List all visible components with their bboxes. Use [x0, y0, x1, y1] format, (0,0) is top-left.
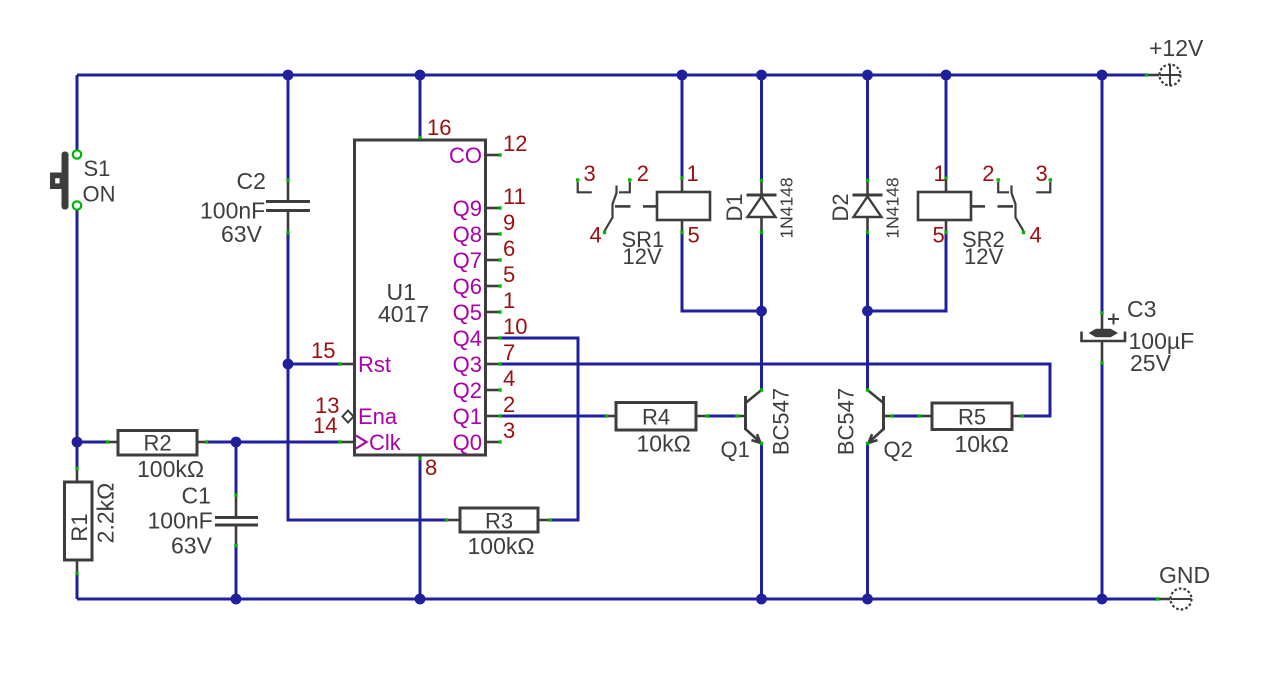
U1 pin 6 (Q7): [453, 236, 516, 273]
U1 pin 15 (Rst): [311, 338, 391, 377]
svg-text:63V: 63V: [221, 221, 263, 247]
svg-text:3: 3: [1036, 161, 1048, 186]
junction top rail / C3: [1097, 70, 1108, 81]
svg-text:12V: 12V: [623, 244, 662, 269]
wire node to R1 top: [76, 442, 79, 468]
U1 pin 8: [418, 455, 437, 480]
wire rail to D1 cathode: [760, 75, 763, 180]
U1 pin 1 (Q5): [453, 288, 516, 325]
U1 pin 4 (Q2): [453, 366, 516, 403]
svg-text:D2: D2: [828, 193, 853, 221]
wire R1 bottom to GND rail: [76, 574, 79, 599]
junction node S1/R1/R2: [72, 437, 83, 448]
svg-text:R3: R3: [485, 509, 513, 534]
wire C3 minus to GND rail: [1101, 364, 1104, 599]
svg-text:Ena: Ena: [358, 404, 398, 429]
U1 pin 10 (Q4): [453, 314, 528, 351]
GND terminal: [1156, 589, 1192, 610]
U1 pin 14 (Clk): [313, 413, 402, 455]
junction top rail / SR1: [677, 70, 688, 81]
svg-text:8: 8: [425, 455, 437, 480]
svg-text:Q4: Q4: [453, 326, 482, 351]
capacitor C3: [1082, 311, 1126, 364]
resistor R1: [65, 467, 93, 575]
svg-text:1N4148: 1N4148: [883, 177, 903, 238]
svg-text:R4: R4: [642, 405, 670, 430]
SR1 contact arm pin 4: [603, 186, 617, 235]
svg-text:Q9: Q9: [453, 196, 482, 221]
wire D2 node to SR2 pin5: [868, 233, 947, 311]
svg-text:4: 4: [1030, 223, 1042, 248]
svg-text:2.2kΩ: 2.2kΩ: [93, 483, 119, 544]
svg-text:63V: 63V: [171, 533, 213, 559]
svg-text:+12V: +12V: [1149, 35, 1204, 61]
svg-text:25V: 25V: [1130, 350, 1172, 376]
svg-text:15: 15: [311, 338, 335, 363]
svg-text:5: 5: [688, 223, 700, 248]
wire rail to C3 plus: [1101, 75, 1104, 312]
junction GND rail / pin8: [415, 594, 426, 605]
wire rail to C2 top: [287, 75, 290, 179]
svg-text:Q1: Q1: [453, 404, 482, 429]
wire Rst link: [288, 363, 340, 366]
svg-text:Q7: Q7: [453, 248, 482, 273]
transistor Q1 (Q1): [735, 388, 763, 445]
svg-text:5: 5: [933, 223, 945, 248]
svg-text:1: 1: [934, 161, 946, 186]
resistor R2: [106, 431, 208, 456]
relay SR2 coil: [918, 176, 1013, 234]
U1 pin 7 (Q3): [453, 340, 516, 377]
svg-text:Q2: Q2: [884, 437, 913, 462]
svg-text:BC547: BC547: [834, 388, 859, 455]
svg-text:5: 5: [503, 262, 515, 287]
transistor Q2 (Q2): [866, 388, 894, 445]
S1 terminal pin top: [73, 150, 81, 158]
svg-text:2: 2: [503, 392, 515, 417]
wire top +12V rail: [77, 74, 1146, 77]
svg-text:10kΩ: 10kΩ: [955, 431, 1009, 457]
U1 pin 5 (Q6): [453, 262, 516, 299]
wire R2 right to Clk: [207, 441, 340, 444]
svg-text:GND: GND: [1159, 562, 1210, 588]
svg-text:R2: R2: [143, 431, 171, 456]
svg-text:Q3: Q3: [453, 352, 482, 377]
SR1 contact pin 3: [576, 178, 592, 192]
wire Q1 to R4 left: [500, 415, 606, 418]
switch S1 body: [62, 152, 69, 210]
wire node to R2 left: [77, 441, 107, 444]
diode D1 symbol: [747, 179, 777, 234]
wire rail to SR2 pin1: [945, 75, 948, 177]
wire C2 bottom to R3 left: [288, 233, 445, 520]
wire node to C1 top: [235, 442, 238, 494]
svg-text:3: 3: [584, 161, 596, 186]
svg-text:Q2: Q2: [453, 378, 482, 403]
svg-text:100kΩ: 100kΩ: [137, 456, 204, 482]
svg-text:1: 1: [503, 288, 515, 313]
svg-text:11: 11: [503, 184, 526, 209]
U1 pin 2 (Q1): [453, 392, 516, 429]
svg-text:10: 10: [503, 314, 527, 339]
svg-text:Clk: Clk: [369, 430, 402, 455]
U1 pin 13 (Ena): [315, 393, 398, 429]
wire S1 top: [76, 75, 79, 150]
svg-text:1: 1: [687, 161, 699, 186]
svg-text:2: 2: [982, 161, 994, 186]
U1 pin 9 (Q8): [453, 210, 516, 247]
wire rail to pin16: [419, 75, 422, 137]
wire Q2 base to R5 left: [893, 415, 919, 418]
svg-text:C3: C3: [1127, 296, 1156, 322]
svg-text:16: 16: [427, 115, 451, 140]
resistor R5: [918, 403, 1024, 430]
svg-text:14: 14: [313, 413, 337, 438]
SR2 contact arm pin 4: [1012, 186, 1026, 235]
junction GND rail / Q1 emitter: [756, 594, 767, 605]
svg-text:Q1: Q1: [721, 437, 750, 462]
op IC U1 4017 box: [355, 140, 486, 455]
wire D2 anode to Q2 collector: [866, 233, 869, 389]
svg-text:10kΩ: 10kΩ: [637, 431, 691, 457]
svg-text:7: 7: [503, 340, 515, 365]
junction GND rail / C1: [231, 594, 242, 605]
junction top rail / D1: [756, 70, 767, 81]
SR1 contact pin 2: [619, 178, 632, 192]
junction GND rail / C3: [1097, 594, 1108, 605]
svg-text:100kΩ: 100kΩ: [468, 533, 535, 559]
svg-text:D1: D1: [722, 193, 747, 221]
junction node SR1/D1: [756, 306, 767, 317]
wire R4 to Q1 base: [708, 415, 736, 418]
resistor R3: [445, 508, 552, 534]
svg-text:R5: R5: [958, 405, 986, 430]
S1 terminal pin bottom: [73, 201, 81, 209]
svg-text:100nF: 100nF: [200, 198, 265, 224]
svg-text:4017: 4017: [378, 301, 429, 327]
svg-text:R1: R1: [67, 513, 92, 541]
wire SR1 pin5 to D1 node: [682, 233, 762, 311]
svg-text:S1: S1: [84, 156, 111, 181]
svg-text:Q0: Q0: [453, 430, 482, 455]
svg-text:12: 12: [503, 131, 527, 156]
wire Q2 emitter to GND rail: [866, 444, 869, 599]
capacitor C2: [266, 178, 310, 234]
junction node SR2/D2: [862, 306, 873, 317]
svg-text:Rst: Rst: [358, 352, 391, 377]
diode D2 symbol: [853, 179, 883, 234]
U1 pin 11 (Q9): [453, 184, 526, 221]
junction top rail / C2: [283, 70, 294, 81]
svg-text:Q8: Q8: [453, 222, 482, 247]
wire bottom GND rail: [77, 598, 1157, 601]
svg-text:3: 3: [503, 418, 515, 443]
junction top rail / pin16: [415, 70, 426, 81]
svg-text:Q5: Q5: [453, 300, 482, 325]
wire S1 to R2 node: [76, 210, 79, 442]
svg-text:4: 4: [590, 223, 602, 248]
wire Q1 emitter to GND rail: [760, 444, 763, 599]
svg-text:9: 9: [503, 210, 515, 235]
wire rail to SR1 pin1: [681, 75, 684, 177]
U1 pin 3 (Q0): [453, 418, 516, 455]
junction top rail / SR2: [941, 70, 952, 81]
svg-text:C2: C2: [237, 168, 266, 194]
svg-text:CO: CO: [449, 143, 482, 168]
svg-text:100nF: 100nF: [148, 508, 213, 534]
+12V terminal: [1145, 65, 1181, 86]
svg-text:C1: C1: [182, 483, 211, 509]
wire D1 anode to Q1 collector: [760, 233, 763, 389]
capacitor C1: [215, 493, 258, 547]
svg-text:BC547: BC547: [769, 388, 794, 455]
svg-text:6: 6: [503, 236, 515, 261]
svg-text:1N4148: 1N4148: [777, 177, 797, 238]
resistor R4: [605, 403, 709, 431]
svg-text:12V: 12V: [964, 244, 1003, 269]
wire C1 bottom to GND: [235, 546, 238, 599]
U1 pin 16: [418, 115, 451, 140]
SR2 contact pin 2: [997, 178, 1010, 192]
SR2 contact pin 3: [1036, 178, 1052, 192]
junction GND rail / Q2 emitter: [862, 594, 873, 605]
junction node C2/Rst/R3: [283, 359, 294, 370]
svg-text:Q6: Q6: [453, 274, 482, 299]
wire rail to D2 cathode: [866, 75, 869, 180]
svg-text:4: 4: [503, 366, 515, 391]
junction top rail / D2: [862, 70, 873, 81]
wire pin8 to GND rail: [419, 459, 422, 599]
U1 pin 12 (CO): [449, 131, 527, 168]
svg-text:ON: ON: [83, 182, 116, 207]
relay SR1 coil: [615, 176, 710, 234]
wire Q4 to R3 right: [500, 338, 578, 520]
junction node R2/C1/Clk: [231, 437, 242, 448]
svg-text:2: 2: [637, 161, 649, 186]
wire Q3 to R5 right: [500, 364, 1050, 416]
